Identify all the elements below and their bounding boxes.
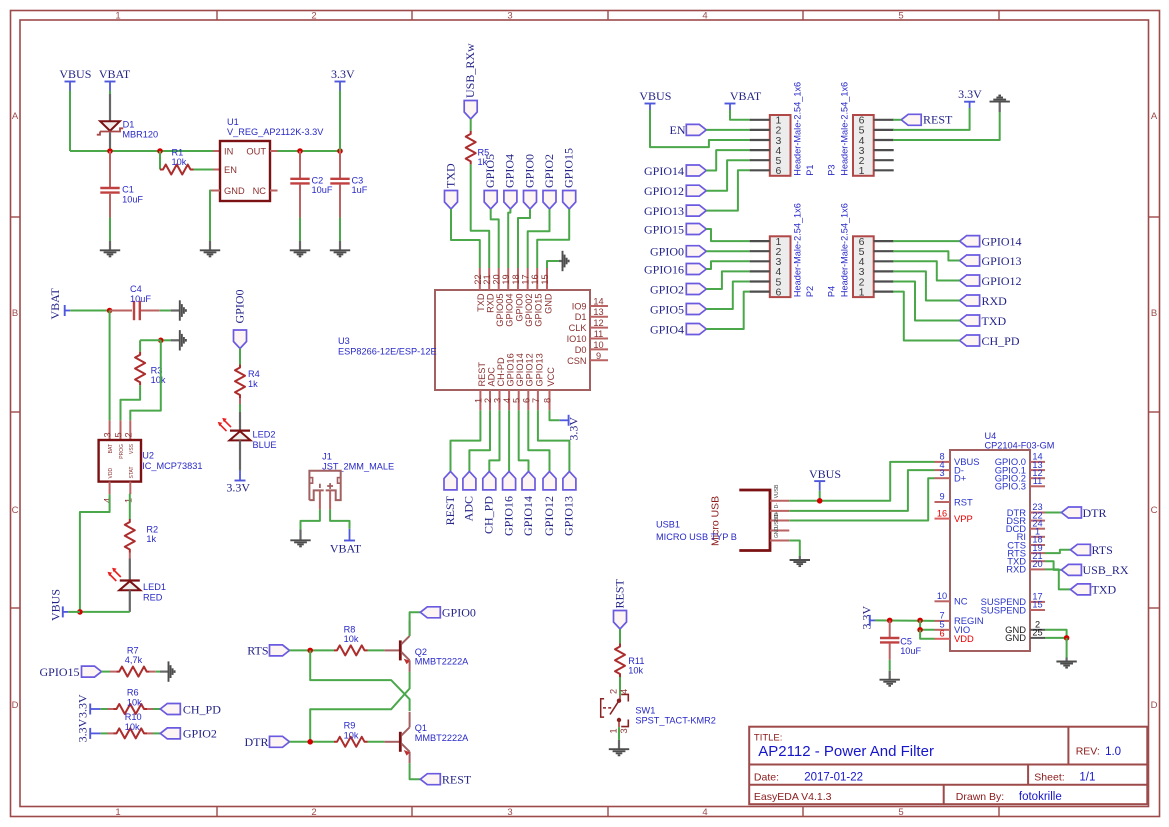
- svg-text:3: 3: [619, 728, 629, 733]
- svg-text:1: 1: [123, 498, 133, 503]
- svg-text:20: 20: [492, 274, 502, 284]
- svg-text:GND: GND: [1005, 632, 1026, 643]
- svg-text:GND: GND: [543, 293, 553, 314]
- svg-text:IO9: IO9: [572, 302, 587, 312]
- svg-text:RST: RST: [954, 496, 973, 507]
- svg-text:20: 20: [1032, 559, 1042, 569]
- svg-text:GPIO5: GPIO5: [650, 302, 684, 316]
- svg-text:GPIO14: GPIO14: [982, 234, 1022, 248]
- svg-text:10uF: 10uF: [900, 646, 921, 656]
- svg-text:9: 9: [596, 351, 601, 361]
- svg-text:2: 2: [123, 432, 133, 437]
- svg-text:RXD: RXD: [1006, 564, 1026, 575]
- svg-text:19: 19: [501, 274, 511, 284]
- svg-text:16: 16: [937, 508, 947, 518]
- svg-text:NC: NC: [954, 596, 968, 607]
- svg-text:Drawn By:: Drawn By:: [956, 791, 1004, 803]
- svg-text:USB1: USB1: [656, 519, 680, 529]
- svg-text:10k: 10k: [151, 375, 166, 385]
- svg-text:4: 4: [103, 498, 113, 503]
- svg-text:10uF: 10uF: [312, 185, 333, 195]
- svg-text:U1: U1: [227, 117, 239, 127]
- svg-text:Date:: Date:: [754, 771, 779, 783]
- svg-text:3: 3: [507, 10, 512, 21]
- svg-text:B: B: [1151, 308, 1157, 319]
- svg-text:CH_PD: CH_PD: [982, 334, 1020, 348]
- svg-text:2: 2: [311, 807, 316, 818]
- svg-text:GPIO12: GPIO12: [644, 184, 684, 198]
- svg-text:3.3V: 3.3V: [76, 694, 90, 718]
- svg-text:EN: EN: [224, 165, 237, 175]
- svg-text:GPIO15: GPIO15: [562, 148, 576, 188]
- svg-text:VBUS: VBUS: [639, 89, 671, 103]
- svg-text:LED1: LED1: [143, 582, 166, 592]
- svg-text:GPIO0: GPIO0: [442, 606, 476, 620]
- svg-text:R11: R11: [628, 656, 644, 666]
- svg-text:14: 14: [593, 297, 603, 307]
- svg-text:P2: P2: [805, 286, 815, 297]
- svg-text:EN: EN: [670, 123, 686, 137]
- svg-text:1: 1: [473, 398, 483, 403]
- svg-text:10k: 10k: [127, 697, 142, 707]
- svg-text:4: 4: [702, 10, 707, 21]
- svg-text:4: 4: [619, 689, 629, 694]
- svg-text:GPIO14: GPIO14: [515, 353, 525, 386]
- svg-text:DTR: DTR: [1083, 506, 1107, 520]
- svg-text:MBR120: MBR120: [122, 129, 158, 139]
- svg-text:GPIO0: GPIO0: [232, 289, 246, 323]
- svg-text:fotokrille: fotokrille: [1019, 791, 1062, 803]
- svg-text:GPIO16: GPIO16: [506, 353, 516, 386]
- svg-text:BAT: BAT: [108, 444, 114, 453]
- svg-text:C1: C1: [122, 185, 134, 195]
- svg-text:VDD: VDD: [954, 633, 974, 644]
- svg-text:DTR: DTR: [245, 735, 269, 749]
- svg-text:C4: C4: [130, 284, 142, 294]
- svg-text:GPIO12: GPIO12: [525, 353, 535, 386]
- svg-text:REST: REST: [923, 112, 953, 126]
- svg-text:3.3V: 3.3V: [331, 67, 355, 81]
- svg-text:MMBT2222A: MMBT2222A: [415, 733, 469, 743]
- svg-text:VUSB: VUSB: [774, 484, 780, 498]
- svg-text:NC: NC: [253, 186, 267, 196]
- svg-text:GPIO15: GPIO15: [644, 222, 684, 236]
- svg-text:CH_PD: CH_PD: [183, 702, 221, 716]
- svg-text:R9: R9: [344, 721, 356, 731]
- svg-text:GPIO13: GPIO13: [982, 254, 1022, 268]
- svg-text:RTS: RTS: [1092, 543, 1113, 557]
- svg-text:ESP8266-12E/ESP-12E: ESP8266-12E/ESP-12E: [338, 347, 437, 357]
- svg-text:R6: R6: [127, 688, 139, 698]
- svg-text:Header-Male-2.54_1x6: Header-Male-2.54_1x6: [792, 203, 802, 297]
- svg-text:GPIO05: GPIO05: [495, 294, 505, 327]
- svg-text:GPIO4: GPIO4: [503, 154, 517, 188]
- svg-text:USB_RXw: USB_RXw: [463, 43, 477, 98]
- svg-text:8: 8: [543, 398, 553, 403]
- svg-text:J1: J1: [322, 452, 332, 462]
- svg-text:REST: REST: [442, 773, 472, 787]
- svg-text:5: 5: [114, 432, 124, 437]
- svg-text:REST: REST: [443, 495, 457, 525]
- svg-text:U3: U3: [338, 336, 350, 346]
- svg-text:10: 10: [937, 591, 947, 601]
- svg-text:6: 6: [521, 398, 531, 403]
- svg-text:RXD: RXD: [486, 293, 496, 313]
- svg-text:RXD: RXD: [982, 294, 1008, 308]
- svg-text:TITLE:: TITLE:: [754, 733, 783, 744]
- svg-text:D-: D-: [774, 503, 780, 509]
- svg-text:25: 25: [1032, 628, 1042, 638]
- svg-text:RTS: RTS: [247, 644, 268, 658]
- svg-text:10k: 10k: [172, 157, 187, 167]
- svg-text:18: 18: [511, 274, 521, 284]
- svg-text:VBAT: VBAT: [48, 287, 62, 319]
- svg-text:C: C: [12, 505, 19, 516]
- svg-text:A: A: [12, 111, 19, 122]
- svg-text:CSN: CSN: [567, 356, 586, 366]
- svg-text:3: 3: [939, 468, 944, 478]
- svg-text:R7: R7: [127, 645, 139, 655]
- svg-text:GND: GND: [774, 527, 780, 539]
- svg-text:GPIO.3: GPIO.3: [995, 481, 1026, 492]
- svg-text:GPIO2: GPIO2: [650, 282, 684, 296]
- svg-text:2: 2: [483, 398, 493, 403]
- svg-text:GPIO02: GPIO02: [524, 294, 534, 327]
- svg-text:4,7k: 4,7k: [125, 655, 143, 665]
- svg-text:1uF: 1uF: [352, 185, 368, 195]
- svg-text:CLK: CLK: [569, 323, 588, 333]
- svg-text:V_REG_AP2112K-3.3V: V_REG_AP2112K-3.3V: [227, 127, 324, 137]
- svg-text:VBUS: VBUS: [49, 589, 63, 621]
- svg-text:GPIO2: GPIO2: [183, 727, 217, 741]
- svg-text:A: A: [1151, 111, 1158, 122]
- svg-text:VCC: VCC: [546, 367, 556, 387]
- svg-text:MICRO USB TYP B: MICRO USB TYP B: [656, 532, 737, 542]
- svg-text:GPIO0: GPIO0: [514, 294, 524, 322]
- svg-text:R10: R10: [125, 712, 142, 722]
- svg-text:6: 6: [775, 165, 781, 177]
- svg-text:GPIO16: GPIO16: [644, 262, 684, 276]
- svg-text:12: 12: [593, 318, 603, 328]
- svg-text:1: 1: [608, 728, 618, 733]
- svg-text:VSS: VSS: [129, 443, 135, 454]
- svg-text:U4: U4: [985, 431, 997, 441]
- svg-text:D+: D+: [954, 473, 967, 484]
- svg-text:VBAT: VBAT: [730, 89, 762, 103]
- svg-text:CH-PD: CH-PD: [496, 357, 506, 386]
- svg-text:2: 2: [311, 10, 316, 21]
- svg-text:10uF: 10uF: [122, 194, 143, 204]
- svg-text:D1: D1: [575, 312, 587, 322]
- svg-text:GPIO13: GPIO13: [534, 353, 544, 386]
- svg-text:GND: GND: [224, 186, 245, 196]
- svg-text:VBUS: VBUS: [809, 467, 841, 481]
- svg-text:GPIO0: GPIO0: [650, 245, 684, 259]
- svg-text:GPIO2: GPIO2: [542, 154, 556, 188]
- svg-text:STAT: STAT: [129, 466, 135, 478]
- svg-text:C3: C3: [352, 175, 364, 185]
- svg-text:GPIO04: GPIO04: [505, 294, 515, 327]
- svg-text:6: 6: [775, 286, 781, 298]
- svg-text:R8: R8: [344, 624, 356, 634]
- svg-text:Sheet:: Sheet:: [1034, 771, 1064, 783]
- svg-text:3: 3: [493, 398, 503, 403]
- svg-text:GPIO0: GPIO0: [522, 154, 536, 188]
- svg-text:VDD: VDD: [108, 468, 114, 479]
- svg-text:17: 17: [521, 274, 531, 284]
- svg-text:4: 4: [702, 807, 707, 818]
- svg-text:VBUS: VBUS: [59, 67, 91, 81]
- svg-text:SPST_TACT-KMR2: SPST_TACT-KMR2: [635, 715, 716, 725]
- svg-text:Header-Male-2.54_1x6: Header-Male-2.54_1x6: [839, 82, 849, 176]
- svg-text:1: 1: [115, 807, 120, 818]
- svg-text:IC_MCP73831: IC_MCP73831: [142, 461, 202, 471]
- svg-text:1: 1: [859, 165, 865, 177]
- svg-text:1/1: 1/1: [1079, 771, 1095, 783]
- svg-text:GPIO12: GPIO12: [542, 496, 556, 536]
- svg-text:Q2: Q2: [415, 647, 427, 657]
- svg-text:CP2104-F03-GM: CP2104-F03-GM: [985, 441, 1055, 451]
- svg-text:GPIO15: GPIO15: [39, 665, 79, 679]
- svg-text:Header-Male-2.54_1x6: Header-Male-2.54_1x6: [792, 82, 802, 176]
- svg-text:TXD: TXD: [982, 314, 1007, 328]
- svg-text:2: 2: [608, 689, 618, 694]
- svg-text:R2: R2: [146, 524, 158, 534]
- svg-text:RED: RED: [143, 592, 163, 602]
- svg-text:3.3V: 3.3V: [567, 417, 581, 441]
- svg-text:10k: 10k: [628, 666, 643, 676]
- svg-text:REST: REST: [612, 578, 626, 608]
- svg-text:1.0: 1.0: [1105, 746, 1121, 758]
- svg-text:1k: 1k: [146, 534, 156, 544]
- svg-text:6: 6: [939, 629, 944, 639]
- svg-text:15: 15: [540, 274, 550, 284]
- svg-text:15: 15: [1032, 600, 1042, 610]
- svg-text:7: 7: [531, 398, 541, 403]
- svg-text:GPIO13: GPIO13: [644, 204, 684, 218]
- svg-text:R1: R1: [172, 147, 184, 157]
- svg-text:C2: C2: [312, 175, 324, 185]
- svg-text:10: 10: [593, 340, 603, 350]
- svg-text:P4: P4: [827, 286, 837, 297]
- svg-text:CH_PD: CH_PD: [482, 496, 496, 534]
- svg-text:TXD: TXD: [443, 163, 457, 188]
- svg-text:GPIO13: GPIO13: [562, 496, 576, 536]
- svg-text:11: 11: [594, 329, 604, 339]
- svg-text:D1: D1: [123, 119, 135, 129]
- svg-text:1: 1: [115, 10, 120, 21]
- svg-text:5: 5: [898, 807, 903, 818]
- svg-text:3.3V: 3.3V: [860, 606, 874, 630]
- svg-text:U2: U2: [142, 451, 154, 461]
- svg-text:C: C: [1151, 505, 1158, 516]
- svg-text:3: 3: [103, 432, 113, 437]
- svg-text:P3: P3: [827, 165, 837, 176]
- svg-text:IO10: IO10: [567, 334, 587, 344]
- svg-text:D: D: [1151, 700, 1158, 711]
- svg-text:4: 4: [502, 398, 512, 403]
- svg-text:C5: C5: [900, 636, 912, 646]
- svg-text:GPIO16: GPIO16: [501, 496, 515, 536]
- svg-text:9: 9: [939, 492, 944, 502]
- svg-text:GPIO12: GPIO12: [982, 274, 1022, 288]
- svg-text:11: 11: [1033, 476, 1043, 486]
- svg-text:IN: IN: [224, 147, 233, 157]
- svg-text:10uF: 10uF: [130, 294, 151, 304]
- svg-text:1: 1: [859, 286, 865, 298]
- svg-text:3.3V: 3.3V: [76, 718, 90, 742]
- svg-text:GPIO4: GPIO4: [650, 322, 684, 336]
- svg-text:SUSPEND: SUSPEND: [981, 604, 1027, 615]
- svg-text:D: D: [12, 700, 19, 711]
- svg-text:B: B: [12, 308, 18, 319]
- svg-text:5: 5: [898, 10, 903, 21]
- svg-text:Header-Male-2.54_1x6: Header-Male-2.54_1x6: [839, 203, 849, 297]
- svg-text:VPP: VPP: [954, 513, 973, 524]
- svg-text:TXD: TXD: [1092, 583, 1117, 597]
- svg-text:VBAT: VBAT: [99, 67, 131, 81]
- svg-text:BLUE: BLUE: [253, 440, 277, 450]
- svg-text:MMBT2222A: MMBT2222A: [415, 657, 469, 667]
- svg-text:10k: 10k: [344, 730, 359, 740]
- svg-text:21: 21: [482, 274, 492, 284]
- svg-text:GPIO14: GPIO14: [521, 496, 535, 536]
- svg-text:GPIO5: GPIO5: [483, 154, 497, 188]
- svg-text:10k: 10k: [344, 634, 359, 644]
- svg-text:16: 16: [530, 274, 540, 284]
- svg-text:3.3V: 3.3V: [226, 481, 250, 495]
- svg-text:13: 13: [593, 307, 603, 317]
- svg-text:2017-01-22: 2017-01-22: [804, 771, 863, 783]
- svg-text:3.3V: 3.3V: [958, 87, 982, 101]
- svg-text:PROG: PROG: [119, 444, 125, 459]
- svg-text:P1: P1: [805, 165, 815, 176]
- svg-text:SW1: SW1: [635, 706, 655, 716]
- svg-text:OUT: OUT: [246, 147, 266, 157]
- svg-text:10k: 10k: [125, 722, 140, 732]
- svg-text:ADC: ADC: [462, 496, 476, 521]
- svg-text:VBAT: VBAT: [330, 542, 362, 556]
- svg-text:REST: REST: [477, 362, 487, 387]
- svg-text:D0: D0: [575, 345, 587, 355]
- svg-text:USB_RX: USB_RX: [1083, 563, 1129, 577]
- svg-text:1k: 1k: [248, 379, 258, 389]
- svg-text:3: 3: [507, 807, 512, 818]
- svg-text:ADC: ADC: [486, 367, 496, 387]
- svg-text:REV:: REV:: [1076, 746, 1100, 758]
- svg-text:R4: R4: [248, 369, 260, 379]
- svg-text:5: 5: [512, 398, 522, 403]
- svg-text:EasyEDA V4.1.3: EasyEDA V4.1.3: [754, 791, 832, 803]
- svg-text:GPIO15: GPIO15: [534, 294, 544, 327]
- svg-text:Q1: Q1: [415, 723, 427, 733]
- svg-text:LED2: LED2: [253, 430, 276, 440]
- svg-text:USBID: USBID: [774, 512, 780, 528]
- svg-text:GPIO14: GPIO14: [644, 164, 684, 178]
- svg-text:AP2112 - Power And Filter: AP2112 - Power And Filter: [758, 743, 934, 760]
